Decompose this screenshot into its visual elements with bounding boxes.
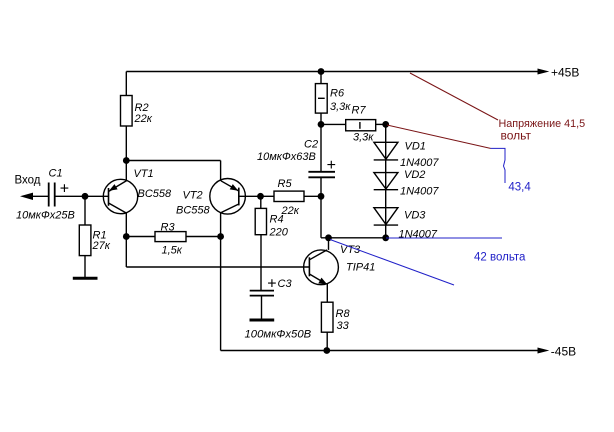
transistor VT2 emitter diagonal [221,181,239,191]
ground (C3) [250,319,275,322]
wire: VT2 base lead [239,195,261,197]
svg-text:VD2: VD2 [404,169,425,181]
svg-text:BC558: BC558 [138,188,173,200]
wire: R3 right lead [186,236,221,238]
wire: VT3 emitter to R8 [326,284,328,302]
wire: R1 to ground [84,256,86,278]
svg-text:1N4007: 1N4007 [400,186,439,198]
svg-text:43,4: 43,4 [508,182,531,194]
svg-text:33: 33 [337,320,350,332]
wire: R2 bottom to emitter node [125,126,127,161]
wire: R5 left lead [261,195,275,197]
svg-text:10мкФх63В: 10мкФх63В [257,151,316,163]
svg-text:27к: 27к [92,240,111,252]
arrow: VT2 emitter (PNP) [230,184,239,191]
transistor VT3 emitter diagonal [309,274,326,284]
svg-text:VD1: VD1 [405,141,426,153]
wire: VT1 collector to R3 node, down to VT3 base line [125,237,127,268]
wire: R4 top lead [260,196,262,208]
arrow: VT1 emitter (PNP) [109,184,118,191]
svg-text:BC558: BC558 [176,205,211,217]
resistor R4 [255,208,266,234]
resistor R6 power mark [318,97,325,99]
svg-text:10мкФх25В: 10мкФх25В [16,210,75,222]
wire: VT1 emitter drop [125,161,127,182]
svg-text:C2: C2 [304,139,318,151]
input arrow [20,193,33,200]
annotation line: blue horizontal 42V [386,237,502,239]
wire: C1 to base node [55,195,109,197]
wire: R6 top lead [320,72,322,84]
arrow: +45V rail head [538,69,550,75]
svg-text:Вход: Вход [15,175,41,187]
wire: R5 right lead [304,195,321,197]
junction: emitter bus / R2 [123,157,130,164]
resistor R6 [315,84,327,114]
svg-text:R5: R5 [278,178,293,190]
svg-text:220: 220 [269,227,289,239]
svg-text:R6: R6 [330,88,345,100]
wire: VT3 collector up [328,238,330,250]
wire: C3 to ground [261,296,263,319]
annotation line: blue diagonal from VT3 node [330,240,454,286]
svg-text:R8: R8 [336,308,351,320]
junction: node B R7/VD1 [382,121,389,128]
wire: R4 to C3 [260,235,262,291]
svg-text:3,3к: 3,3к [353,132,374,144]
annotation line: from +45V rail (dark red) [410,73,498,120]
junction: R8 / -45V rail [323,347,330,354]
annotation line: blue drop to 43,4 [491,148,506,183]
junction: R3 / VT2 collector [217,233,224,240]
wire: VT2 emitter drop [220,161,222,182]
resistor R2 [121,96,133,127]
wire: VT3 base line [126,266,309,268]
wire: R1 top [84,196,86,225]
capacitor C1 plates [49,183,55,207]
wire: R7 right lead [376,123,386,125]
svg-text:R4: R4 [270,214,284,226]
junction: VT2 base / R5 / R4 [257,193,264,200]
annotation line: from node B (dark red) [387,125,491,148]
wire: input to C1 [31,195,49,197]
wire: VT2 collector down to -45V rail [220,213,222,351]
transistor VT3 base bar [308,257,310,276]
svg-text:+: + [267,275,276,292]
resistor R1 [79,225,91,256]
svg-text:+45В: +45В [551,66,579,80]
svg-text:VT1: VT1 [134,168,154,180]
svg-text:1,5к: 1,5к [162,245,183,257]
svg-text:100мкФх50В: 100мкФх50В [245,329,312,341]
transistor VT1 circle [103,179,137,213]
svg-text:42 вольта: 42 вольта [474,252,526,264]
transistor VT1 collector wire [125,213,127,237]
junction: output node C2/R5 [318,193,325,200]
wire: node A to C2 [320,124,322,171]
transistor VT2 base bar [238,188,240,206]
diode VD2 [374,173,398,190]
wire: R3 left lead [126,236,155,238]
svg-text:C1: C1 [49,168,63,180]
transistor VT1 collector diagonal [109,203,127,213]
junction: +45V rail / R6 [318,68,325,75]
wire: R6 bottom to node A [320,113,322,124]
resistor R5 [274,191,304,201]
svg-text:-45В: -45В [551,344,576,358]
wire: emitter bus VT1-VT2 [126,160,220,162]
transistor VT2 circle [210,179,246,215]
wire: R8 to -45V rail [326,332,328,350]
svg-text:+: + [327,157,336,174]
arrow: VT3 emitter (NPN) [318,278,327,285]
transistor VT1 emitter diagonal [109,181,127,192]
resistor R7 [346,120,376,131]
svg-text:1N4007: 1N4007 [399,229,438,241]
diode VD3 [374,208,398,225]
svg-text:3,3к: 3,3к [330,101,351,113]
svg-text:VD3: VD3 [404,210,426,222]
wire: output node down [320,196,322,238]
junction: VT1 collector / R3 [123,233,130,240]
wire: output node to diode bottom [321,237,386,239]
arrow: -45V rail head [538,348,550,354]
diode VD1 [374,142,398,160]
svg-text:TIP41: TIP41 [346,261,375,273]
wire: node B through diode chain to node C [385,124,387,237]
transistor VT3 collector diagonal [309,250,327,260]
junction: node C diode bottom [382,234,389,241]
junction: node A R6/R7/C2 [318,121,325,128]
ground (input) [73,277,98,280]
transistor VT1 base bar [108,188,110,206]
junction: C1 / R1 / VT1 base [82,193,89,200]
resistor R8 [321,302,333,332]
svg-text:C3: C3 [278,278,293,290]
svg-text:VT2: VT2 [183,190,203,202]
wire: C2 to output node [320,178,322,197]
svg-text:вольт: вольт [501,129,532,143]
resistor R7 power mark [359,122,361,129]
svg-text:R3: R3 [161,222,176,234]
junction: VT3 collector node [325,234,332,241]
transistor VT3 circle [304,250,339,285]
wire: node A to R7 [321,123,346,125]
svg-text:R7: R7 [352,105,367,117]
wire: R2 top wire [125,72,127,96]
resistor R3 [155,232,186,242]
capacitor C3 plates [250,291,274,296]
transistor VT2 collector diagonal [221,204,239,213]
svg-text:22к: 22к [134,113,153,125]
capacitor C2 plates [308,172,335,178]
svg-text:1N4007: 1N4007 [400,157,439,169]
wire: +45V rail [126,71,538,73]
wire: -45V rail [221,350,538,352]
svg-text:+: + [60,181,69,198]
